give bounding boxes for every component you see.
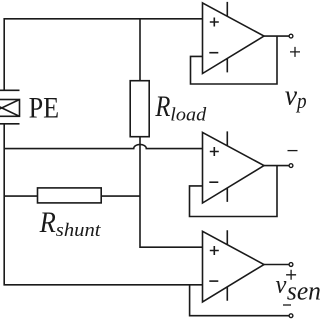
terminal vsens - xyxy=(289,314,293,318)
svg-text:shunt: shunt xyxy=(56,220,101,241)
svg-text:R: R xyxy=(39,206,56,239)
wire U3 output xyxy=(264,264,289,266)
piezo element PE xyxy=(0,90,20,124)
op-amp U1 xyxy=(203,2,265,74)
wire U1 feedback xyxy=(191,36,278,84)
svg-text:v: v xyxy=(285,81,298,112)
wire U2 output xyxy=(264,165,289,167)
op-amp U2 xyxy=(203,131,265,203)
svg-text:v: v xyxy=(276,272,288,299)
wire node B: PE bottom to U3 - input xyxy=(4,124,202,285)
op-amp U3 xyxy=(203,230,265,302)
wire with hop: node B to U2 + input xyxy=(4,144,202,148)
wire Rshunt left xyxy=(4,195,37,197)
wire branch to Rload top xyxy=(139,19,141,81)
wire Rload bottom to U3 + input xyxy=(140,137,203,248)
terminal minus output xyxy=(289,164,293,168)
svg-text:p: p xyxy=(295,88,306,113)
resistor Rload xyxy=(130,81,149,137)
svg-text:sens: sens xyxy=(287,276,320,305)
label + at vp terminal xyxy=(290,47,300,57)
wire node A: PE top to U1 + input xyxy=(4,19,202,91)
wire U1 output xyxy=(264,35,289,37)
wire U2 feedback xyxy=(190,166,278,217)
label - at vsens minus terminal xyxy=(283,304,291,306)
label + at vsens terminal xyxy=(286,270,296,280)
svg-text:PE: PE xyxy=(29,91,59,124)
svg-text:R: R xyxy=(155,90,171,123)
label - at U2 terminal xyxy=(288,150,298,152)
terminal vp xyxy=(289,34,293,38)
wire Rshunt right to node C xyxy=(101,195,140,197)
wire node B branch to vsens - terminal xyxy=(190,285,289,316)
svg-text:load: load xyxy=(170,105,206,126)
resistor Rshunt xyxy=(38,188,102,203)
terminal vsens + xyxy=(289,263,293,267)
